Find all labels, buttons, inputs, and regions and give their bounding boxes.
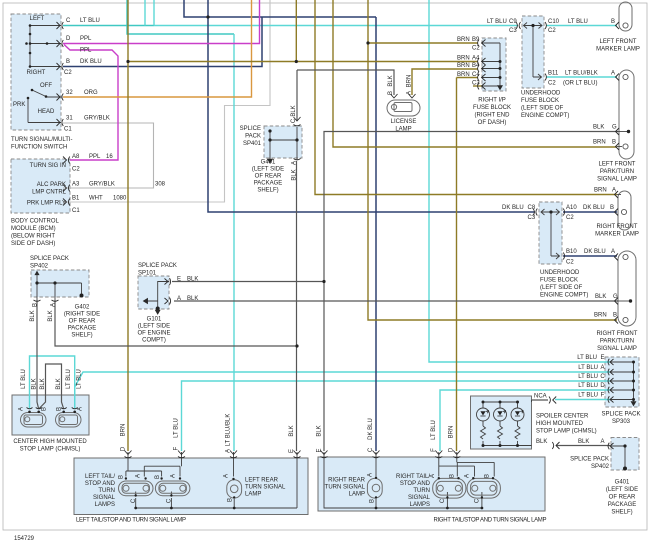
svg-text:SPLICE: SPLICE bbox=[240, 126, 261, 132]
svg-text:PARK/TURN: PARK/TURN bbox=[600, 339, 634, 345]
svg-text:E: E bbox=[317, 448, 323, 452]
svg-text:A10: A10 bbox=[566, 205, 577, 211]
svg-text:154729: 154729 bbox=[14, 536, 35, 542]
svg-text:DK BLU: DK BLU bbox=[584, 249, 606, 255]
svg-text:(LEFT SIDE: (LEFT SIDE bbox=[138, 324, 170, 330]
svg-text:B: B bbox=[66, 59, 70, 65]
svg-text:LT BLU: LT BLU bbox=[431, 420, 437, 440]
svg-text:RIGHT: RIGHT bbox=[27, 70, 46, 76]
svg-text:LT BLU: LT BLU bbox=[80, 18, 100, 24]
svg-text:BODY CONTROL: BODY CONTROL bbox=[11, 219, 60, 225]
svg-text:DK BLU: DK BLU bbox=[502, 205, 524, 211]
svg-text:A: A bbox=[600, 365, 604, 371]
svg-text:C3: C3 bbox=[472, 81, 480, 87]
svg-text:BLK: BLK bbox=[48, 310, 54, 321]
svg-text:LT BLU: LT BLU bbox=[578, 365, 598, 371]
svg-text:A4: A4 bbox=[472, 56, 480, 62]
svg-text:A: A bbox=[368, 473, 374, 477]
svg-text:UNDERHOOD: UNDERHOOD bbox=[540, 270, 580, 276]
svg-text:RIGHT I/P: RIGHT I/P bbox=[478, 98, 506, 104]
svg-text:RIGHT REAR: RIGHT REAR bbox=[328, 478, 366, 484]
svg-text:LT BLU: LT BLU bbox=[577, 355, 597, 361]
svg-text:C2: C2 bbox=[566, 215, 574, 221]
svg-text:C2: C2 bbox=[64, 70, 72, 76]
svg-text:GRY/BLK: GRY/BLK bbox=[84, 116, 110, 122]
svg-text:BLK: BLK bbox=[388, 75, 394, 86]
svg-text:SHELF): SHELF) bbox=[71, 333, 92, 339]
svg-text:TURN SIGNAL: TURN SIGNAL bbox=[245, 485, 286, 491]
svg-text:BLK: BLK bbox=[593, 125, 604, 131]
svg-text:RIGHT FRONT: RIGHT FRONT bbox=[597, 331, 638, 337]
svg-text:LAMPS: LAMPS bbox=[410, 502, 430, 508]
svg-text:PRK: PRK bbox=[13, 102, 25, 108]
svg-text:TURN: TURN bbox=[98, 488, 115, 494]
svg-text:(BELOW RIGHT: (BELOW RIGHT bbox=[11, 234, 55, 240]
svg-text:SPLICE PACK: SPLICE PACK bbox=[570, 457, 609, 463]
svg-text:A: A bbox=[430, 474, 436, 478]
svg-text:(LEFT SIDE OF: (LEFT SIDE OF bbox=[521, 106, 564, 112]
svg-text:FUSE BLOCK: FUSE BLOCK bbox=[473, 105, 511, 111]
svg-text:(RIGHT SIDE: (RIGHT SIDE bbox=[64, 312, 100, 318]
svg-text:BRN: BRN bbox=[594, 313, 607, 319]
svg-text:A: A bbox=[177, 296, 181, 302]
svg-text:LEFT FRONT: LEFT FRONT bbox=[599, 162, 636, 168]
svg-text:E: E bbox=[289, 449, 295, 453]
svg-text:CENTER HIGH MOUNTED: CENTER HIGH MOUNTED bbox=[13, 439, 87, 445]
svg-text:B: B bbox=[612, 140, 616, 146]
svg-text:PACKAGE: PACKAGE bbox=[68, 326, 97, 332]
svg-text:SPLICE PACK: SPLICE PACK bbox=[602, 412, 641, 418]
svg-text:16: 16 bbox=[106, 154, 113, 160]
svg-text:F: F bbox=[431, 448, 437, 452]
svg-text:BLK: BLK bbox=[578, 439, 589, 445]
svg-text:C3: C3 bbox=[528, 215, 536, 221]
svg-text:G101: G101 bbox=[147, 317, 162, 323]
svg-text:A: A bbox=[465, 474, 471, 478]
svg-text:TURN SIG IN: TURN SIG IN bbox=[30, 163, 66, 169]
svg-text:OF DASH): OF DASH) bbox=[478, 120, 507, 126]
svg-text:OF REAR: OF REAR bbox=[255, 174, 282, 180]
svg-text:RIGHT TAIL/STOP AND TURN SIGNA: RIGHT TAIL/STOP AND TURN SIGNAL LAMP bbox=[434, 518, 547, 524]
svg-text:LT BLU/BLK: LT BLU/BLK bbox=[565, 71, 598, 77]
svg-text:TURN SIGNAL: TURN SIGNAL bbox=[325, 485, 366, 491]
svg-text:BLK: BLK bbox=[289, 425, 295, 436]
svg-text:BRN: BRN bbox=[457, 37, 470, 43]
svg-text:A: A bbox=[611, 71, 615, 77]
svg-text:BRN: BRN bbox=[457, 56, 470, 62]
svg-text:SP101: SP101 bbox=[138, 271, 157, 277]
svg-text:GRY/BLK: GRY/BLK bbox=[89, 182, 115, 188]
svg-text:SIDE OF DASH): SIDE OF DASH) bbox=[11, 241, 55, 247]
svg-text:WHT: WHT bbox=[89, 196, 103, 202]
svg-text:ALC PARK: ALC PARK bbox=[37, 182, 66, 188]
svg-text:C: C bbox=[440, 498, 446, 503]
svg-text:BLK: BLK bbox=[187, 277, 198, 283]
svg-text:BLK: BLK bbox=[40, 378, 46, 389]
svg-text:C10: C10 bbox=[548, 19, 560, 25]
svg-text:STOP AND: STOP AND bbox=[400, 481, 431, 487]
svg-text:B: B bbox=[33, 303, 39, 307]
svg-text:LT BLU: LT BLU bbox=[487, 19, 507, 25]
svg-text:LT BLU/BLK: LT BLU/BLK bbox=[226, 414, 232, 447]
svg-text:C2: C2 bbox=[472, 46, 480, 52]
svg-text:A: A bbox=[136, 474, 142, 478]
svg-text:G402: G402 bbox=[75, 305, 90, 311]
svg-text:DK BLU: DK BLU bbox=[583, 205, 605, 211]
svg-text:ENGINE COMPT): ENGINE COMPT) bbox=[540, 293, 588, 299]
svg-text:E: E bbox=[600, 355, 604, 361]
svg-text:BLK: BLK bbox=[595, 294, 606, 300]
svg-text:SIGNAL LAMP: SIGNAL LAMP bbox=[597, 177, 637, 183]
svg-text:DK BLU: DK BLU bbox=[80, 59, 102, 65]
svg-text:A: A bbox=[292, 161, 298, 165]
svg-text:BLK: BLK bbox=[32, 378, 38, 389]
svg-text:A: A bbox=[226, 449, 232, 453]
svg-text:RIGHT TAIL/: RIGHT TAIL/ bbox=[396, 474, 430, 480]
svg-text:BRN: BRN bbox=[593, 140, 606, 146]
svg-text:LT BLU: LT BLU bbox=[568, 19, 588, 25]
svg-text:SPOILER CENTER: SPOILER CENTER bbox=[536, 414, 589, 420]
svg-text:C1: C1 bbox=[72, 208, 80, 214]
svg-text:B: B bbox=[449, 474, 455, 478]
svg-text:G401: G401 bbox=[261, 160, 276, 166]
svg-text:DK BLU: DK BLU bbox=[368, 418, 374, 440]
svg-text:TURN: TURN bbox=[413, 488, 430, 494]
svg-text:SIGNAL: SIGNAL bbox=[408, 495, 431, 501]
svg-text:C3: C3 bbox=[509, 28, 517, 34]
svg-text:C2: C2 bbox=[548, 81, 556, 87]
svg-text:OF ENGINE: OF ENGINE bbox=[137, 331, 170, 337]
svg-text:STOP LAMP (CHMSL): STOP LAMP (CHMSL) bbox=[20, 447, 81, 453]
svg-text:BRN: BRN bbox=[449, 426, 455, 439]
svg-text:LT BLU: LT BLU bbox=[21, 369, 27, 389]
svg-text:OFF: OFF bbox=[40, 83, 52, 89]
svg-text:(LEFT SIDE: (LEFT SIDE bbox=[606, 487, 638, 493]
svg-text:B: B bbox=[613, 313, 617, 319]
svg-text:HIGH MOUNTED: HIGH MOUNTED bbox=[536, 421, 584, 427]
svg-text:MARKER LAMP: MARKER LAMP bbox=[596, 47, 640, 53]
svg-text:C2: C2 bbox=[72, 167, 80, 173]
svg-text:BLK: BLK bbox=[56, 378, 62, 389]
svg-text:SHELF): SHELF) bbox=[611, 510, 632, 516]
svg-text:SPLICE PACK: SPLICE PACK bbox=[138, 263, 177, 269]
svg-text:C2: C2 bbox=[548, 28, 556, 34]
svg-text:B: B bbox=[388, 91, 394, 95]
svg-text:MODULE (BCM): MODULE (BCM) bbox=[11, 226, 56, 232]
svg-text:ORG: ORG bbox=[84, 90, 98, 96]
svg-text:LMP CNTRL: LMP CNTRL bbox=[32, 190, 67, 196]
svg-text:C2: C2 bbox=[566, 260, 574, 266]
svg-text:1080: 1080 bbox=[113, 196, 127, 202]
svg-text:LT BLU: LT BLU bbox=[578, 374, 598, 380]
svg-text:OF REAR: OF REAR bbox=[69, 319, 96, 325]
svg-text:STOP LAMP (CHMSL): STOP LAMP (CHMSL) bbox=[536, 429, 597, 435]
svg-text:LAMPS: LAMPS bbox=[95, 502, 115, 508]
svg-text:A: A bbox=[171, 474, 177, 478]
svg-text:B10: B10 bbox=[566, 249, 577, 255]
svg-text:LAMP: LAMP bbox=[245, 492, 261, 498]
svg-text:G: G bbox=[613, 294, 618, 300]
svg-text:BRN: BRN bbox=[594, 188, 607, 194]
svg-text:BRN: BRN bbox=[121, 424, 127, 437]
svg-text:LT BLU: LT BLU bbox=[66, 369, 72, 389]
svg-text:A: A bbox=[224, 474, 230, 478]
svg-text:B: B bbox=[119, 475, 125, 479]
svg-text:A3: A3 bbox=[72, 182, 80, 188]
svg-text:SP402: SP402 bbox=[591, 464, 610, 470]
svg-text:BRN: BRN bbox=[407, 75, 413, 88]
svg-text:32: 32 bbox=[66, 90, 73, 96]
svg-text:LEFT TAIL/: LEFT TAIL/ bbox=[85, 474, 115, 480]
svg-text:B: B bbox=[155, 475, 161, 479]
svg-text:A: A bbox=[407, 91, 413, 95]
svg-text:LEFT: LEFT bbox=[30, 16, 45, 22]
svg-text:NCA: NCA bbox=[534, 394, 547, 400]
svg-text:PACKAGE: PACKAGE bbox=[608, 502, 637, 508]
svg-text:D: D bbox=[66, 36, 71, 42]
svg-text:C4: C4 bbox=[472, 72, 480, 78]
svg-text:D: D bbox=[600, 383, 605, 389]
svg-text:F: F bbox=[601, 393, 605, 399]
svg-text:SIGNAL: SIGNAL bbox=[93, 495, 116, 501]
svg-text:BRN: BRN bbox=[457, 72, 470, 78]
svg-text:COMPT): COMPT) bbox=[142, 338, 166, 344]
svg-text:A: A bbox=[78, 407, 84, 411]
svg-text:PPL: PPL bbox=[80, 48, 92, 54]
svg-text:B: B bbox=[57, 407, 63, 411]
svg-text:PACK: PACK bbox=[245, 134, 261, 140]
svg-text:PARK/TURN: PARK/TURN bbox=[600, 169, 634, 175]
svg-text:PPL: PPL bbox=[80, 36, 92, 42]
svg-text:B1: B1 bbox=[72, 196, 80, 202]
svg-text:C8: C8 bbox=[528, 205, 536, 211]
svg-text:308: 308 bbox=[155, 182, 166, 188]
svg-text:D: D bbox=[449, 447, 455, 452]
svg-text:LT BLU: LT BLU bbox=[174, 418, 180, 438]
svg-text:(LEFT SIDE OF: (LEFT SIDE OF bbox=[540, 285, 583, 291]
svg-text:C: C bbox=[368, 447, 374, 452]
svg-text:31: 31 bbox=[66, 116, 73, 122]
svg-text:A: A bbox=[612, 188, 616, 194]
svg-text:MARKER LAMP: MARKER LAMP bbox=[595, 232, 639, 238]
svg-text:BLK: BLK bbox=[536, 439, 547, 445]
svg-text:FUSE BLOCK: FUSE BLOCK bbox=[540, 278, 578, 284]
svg-text:E: E bbox=[177, 277, 181, 283]
svg-text:B: B bbox=[610, 205, 614, 211]
svg-text:SIGNAL LAMP: SIGNAL LAMP bbox=[597, 346, 637, 352]
svg-text:A: A bbox=[611, 249, 615, 255]
svg-text:PPL: PPL bbox=[89, 154, 101, 160]
svg-text:C: C bbox=[131, 498, 137, 503]
svg-text:BLK: BLK bbox=[292, 169, 298, 180]
svg-text:B: B bbox=[370, 499, 376, 503]
svg-text:PRK LMP RLY: PRK LMP RLY bbox=[27, 201, 66, 207]
svg-text:A: A bbox=[19, 407, 25, 411]
svg-text:F: F bbox=[174, 446, 180, 450]
svg-text:RIGHT FRONT: RIGHT FRONT bbox=[597, 224, 638, 230]
svg-text:LT BLU: LT BLU bbox=[578, 383, 598, 389]
svg-text:OF REAR: OF REAR bbox=[609, 495, 636, 501]
svg-text:B: B bbox=[611, 19, 615, 25]
svg-text:LT BLU: LT BLU bbox=[578, 393, 598, 399]
svg-text:G401: G401 bbox=[615, 480, 630, 486]
svg-text:LEFT FRONT: LEFT FRONT bbox=[600, 39, 637, 45]
svg-text:STOP AND: STOP AND bbox=[85, 481, 116, 487]
svg-text:BRN: BRN bbox=[457, 63, 470, 69]
svg-text:A: A bbox=[51, 303, 57, 307]
svg-text:LAMP: LAMP bbox=[395, 127, 411, 133]
svg-text:C9: C9 bbox=[509, 19, 517, 25]
svg-text:C: C bbox=[600, 374, 605, 380]
svg-text:SP303: SP303 bbox=[612, 419, 631, 425]
svg-text:PACKAGE: PACKAGE bbox=[254, 181, 283, 187]
svg-text:B11: B11 bbox=[548, 71, 559, 77]
svg-text:B4: B4 bbox=[472, 63, 480, 69]
svg-text:ENGINE COMPT): ENGINE COMPT) bbox=[521, 113, 569, 119]
svg-text:SHELF): SHELF) bbox=[257, 188, 278, 194]
svg-text:A8: A8 bbox=[72, 154, 80, 160]
svg-text:C: C bbox=[167, 498, 173, 503]
svg-text:(LEFT SIDE: (LEFT SIDE bbox=[252, 167, 284, 173]
svg-text:B9: B9 bbox=[472, 37, 480, 43]
svg-text:B: B bbox=[228, 498, 234, 502]
svg-text:D: D bbox=[121, 446, 127, 451]
svg-text:HEAD: HEAD bbox=[38, 109, 55, 115]
svg-text:C: C bbox=[475, 498, 481, 503]
svg-text:(OR LT BLU): (OR LT BLU) bbox=[563, 81, 597, 87]
svg-text:B: B bbox=[484, 474, 490, 478]
svg-text:LEFT TAIL/STOP AND TURN SIGNAL: LEFT TAIL/STOP AND TURN SIGNAL LAMP bbox=[76, 518, 186, 524]
svg-text:FUSE BLOCK: FUSE BLOCK bbox=[521, 98, 559, 104]
svg-text:LICENSE: LICENSE bbox=[391, 119, 417, 125]
svg-text:LEFT REAR: LEFT REAR bbox=[245, 478, 279, 484]
svg-text:C1: C1 bbox=[64, 127, 72, 133]
svg-text:(RIGHT END: (RIGHT END bbox=[475, 113, 511, 119]
svg-text:C: C bbox=[291, 118, 297, 123]
svg-text:C: C bbox=[66, 18, 71, 24]
svg-text:SP401: SP401 bbox=[243, 141, 262, 147]
svg-text:BLK: BLK bbox=[317, 425, 323, 436]
svg-text:SPLICE PACK: SPLICE PACK bbox=[30, 256, 69, 262]
svg-text:BLK: BLK bbox=[291, 105, 297, 116]
svg-text:BLK: BLK bbox=[30, 310, 36, 321]
svg-text:B: B bbox=[42, 407, 48, 411]
svg-text:A: A bbox=[600, 439, 604, 445]
svg-text:BLK: BLK bbox=[187, 296, 198, 302]
svg-text:SP402: SP402 bbox=[30, 264, 49, 270]
svg-text:LAMP: LAMP bbox=[349, 492, 365, 498]
svg-text:G: G bbox=[612, 125, 617, 131]
svg-text:LT BLU: LT BLU bbox=[77, 369, 83, 389]
svg-text:TURN SIGNAL/MULTI-: TURN SIGNAL/MULTI- bbox=[11, 137, 73, 143]
svg-text:UNDERHOOD: UNDERHOOD bbox=[521, 91, 561, 97]
svg-text:FUNCTION SWITCH: FUNCTION SWITCH bbox=[11, 145, 67, 151]
